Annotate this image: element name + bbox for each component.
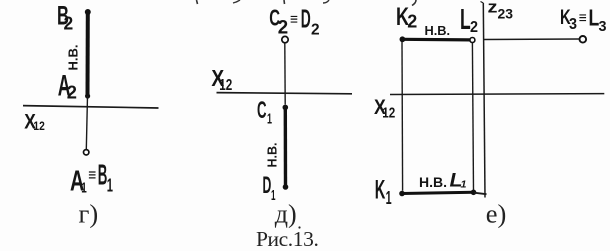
line L2 to K3L3	[484, 38, 580, 41]
label Z23	[488, 0, 514, 22]
segment K2L2 (frontal projection, thick)	[400, 36, 470, 42]
caption g)	[79, 198, 99, 228]
svg-text:2: 2	[67, 81, 77, 102]
stray mark top p4	[323, 0, 329, 3]
label X12 (fig g)	[24, 111, 45, 134]
point C2=D2 circle	[282, 36, 288, 42]
point K3=L3 open circle	[580, 36, 587, 43]
stray mark top p3	[283, 0, 286, 4]
svg-text:12: 12	[382, 105, 395, 122]
axis X12 (fig g)	[23, 106, 159, 108]
point A1=B1 circle	[84, 150, 89, 155]
label C1	[257, 97, 272, 128]
axis X12 (fig d)	[217, 93, 353, 94]
label X12 (fig d)	[211, 65, 232, 94]
svg-text:2: 2	[311, 22, 320, 39]
label D1	[263, 172, 276, 204]
svg-text:C: C	[257, 97, 267, 124]
label K3=L3	[560, 5, 607, 35]
construction line L2 to L1	[472, 43, 473, 191]
tail K1L1 to z axis	[474, 193, 487, 195]
label L2	[460, 4, 478, 36]
caption d)	[275, 199, 297, 228]
segment A2B2 (frontal projection, thick)	[85, 9, 91, 99]
svg-text:2: 2	[278, 17, 288, 39]
svg-text:Н.В.: Н.В.	[419, 174, 447, 190]
svg-text:1: 1	[107, 175, 113, 196]
label C2=D2	[269, 3, 320, 38]
svg-text:е): е)	[486, 198, 507, 228]
svg-text:2: 2	[407, 11, 417, 32]
svg-text:23: 23	[498, 7, 514, 22]
svg-text:г): г)	[79, 198, 99, 228]
svg-text:Рис.13.: Рис.13.	[256, 227, 318, 251]
svg-text:1: 1	[267, 111, 272, 128]
stray mark top p5	[412, 0, 416, 6]
label K1	[375, 175, 392, 208]
label A2	[58, 70, 77, 103]
svg-text:12: 12	[219, 77, 232, 94]
svg-text:д): д)	[275, 199, 297, 228]
stray mark top p2	[233, 0, 240, 3]
label A1=B1	[70, 160, 113, 198]
svg-text:Н.В.: Н.В.	[425, 23, 451, 38]
label N.V. rotated (fig g)	[66, 45, 81, 71]
label N.V. rotated (fig d)	[266, 143, 280, 168]
svg-text:z: z	[488, 0, 498, 17]
segment K1L1 (horizontal projection, thick)	[399, 190, 476, 197]
construction line C2 to C1	[284, 43, 286, 104]
point L2 open circle	[470, 38, 475, 43]
caption Ris.13.	[256, 226, 318, 251]
caption e)	[486, 198, 507, 228]
label B2	[57, 1, 73, 34]
svg-text:1: 1	[81, 180, 87, 197]
construction line A2 to A1	[86, 96, 87, 150]
svg-text:≡: ≡	[290, 12, 298, 29]
label N.V. bottom (fig e)	[419, 174, 447, 190]
stray mark top p1	[197, 0, 198, 4]
label L1	[450, 170, 467, 191]
segment C1D1 (horizontal projection, thick)	[283, 105, 289, 190]
svg-text:≡: ≡	[579, 10, 587, 27]
svg-text:12: 12	[33, 119, 45, 133]
svg-text:K: K	[375, 175, 386, 205]
label X12 (fig e)	[374, 95, 395, 122]
label N.V. gray top (fig e)	[425, 23, 451, 38]
svg-text:≡: ≡	[88, 165, 96, 184]
svg-text:3: 3	[569, 16, 577, 33]
svg-text:Н.В.: Н.В.	[266, 143, 280, 168]
axis X12 (fig e)	[390, 93, 604, 96]
svg-text:D: D	[301, 3, 311, 33]
svg-text:1: 1	[386, 187, 392, 208]
svg-text:2: 2	[64, 13, 74, 34]
label K2	[396, 3, 417, 32]
construction line K2 to K1	[401, 42, 404, 191]
svg-text:3: 3	[599, 19, 607, 35]
svg-text:Н.В.: Н.В.	[66, 45, 81, 71]
svg-text:2: 2	[470, 19, 478, 36]
axis Z23	[481, 2, 486, 198]
svg-text:D: D	[263, 172, 272, 199]
svg-text:1: 1	[461, 179, 467, 190]
